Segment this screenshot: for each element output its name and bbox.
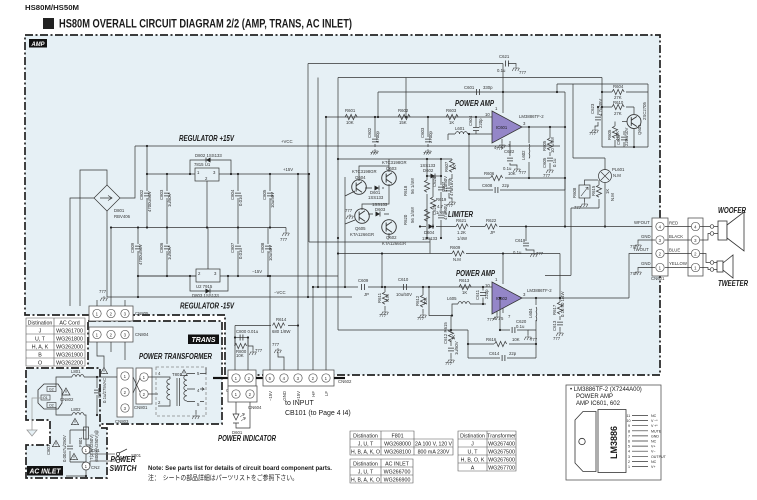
svg-text:Q602: Q602 <box>386 235 397 240</box>
svg-text:R614: R614 <box>276 317 287 322</box>
svg-text:4.7: 4.7 <box>437 204 444 209</box>
transistor Q605 <box>355 209 370 224</box>
svg-text:HF: HF <box>311 391 316 397</box>
svg-text:+VCC: +VCC <box>281 139 293 144</box>
X cap across switch <box>70 430 86 462</box>
svg-text:LM3886TF-2: LM3886TF-2 <box>519 114 544 119</box>
svg-text:LF: LF <box>324 391 329 396</box>
IC body <box>598 410 626 473</box>
svg-text:RED: RED <box>669 221 678 226</box>
connector CN604 <box>228 386 257 402</box>
svg-text:777: 777 <box>553 336 561 341</box>
svg-text:D803 1SS133: D803 1SS133 <box>192 293 219 298</box>
gray ground left <box>27 420 37 436</box>
svg-text:15K: 15K <box>399 120 407 125</box>
svg-text:Note: See parts list for detai: Note: See parts list for details of circ… <box>148 465 332 472</box>
svg-text:L801: L801 <box>71 369 81 374</box>
svg-text:BLACK: BLACK <box>669 234 683 239</box>
svg-text:4: 4 <box>628 450 630 454</box>
svg-text:1u/50V: 1u/50V <box>167 246 172 260</box>
svg-text:C608: C608 <box>482 183 493 188</box>
svg-text:J, U, T: J, U, T <box>358 470 374 476</box>
svg-text:CN1: CN1 <box>91 448 100 453</box>
svg-text:22p: 22p <box>509 351 517 356</box>
transformer T801 <box>156 367 206 416</box>
speaker tweeter <box>717 261 723 272</box>
fuse F801 <box>84 427 89 439</box>
svg-text:GND: GND <box>651 434 659 438</box>
capacitor C807 <box>237 228 239 277</box>
svg-text:KTC3198GR: KTC3198GR <box>382 160 407 165</box>
diode D603 <box>376 212 381 217</box>
wire -15V left segment <box>138 275 196 277</box>
lamp PL601 + LDR R608 block <box>573 158 605 170</box>
capacitor C804 <box>237 174 239 228</box>
connector CN804 <box>89 327 133 342</box>
svg-text:R609: R609 <box>450 245 461 250</box>
resistor R615 + capacitor C612 <box>450 340 452 358</box>
svg-text:IC602: IC602 <box>496 296 508 301</box>
svg-text:Distination: Distination <box>28 321 53 327</box>
tweeter wiring <box>700 254 710 270</box>
svg-text:R604: R604 <box>613 84 624 89</box>
diode D803 loop <box>190 276 228 291</box>
svg-text:0.1u 50 1/4W: 0.1u 50 1/4W <box>560 290 565 317</box>
CN602 risers <box>270 117 326 370</box>
svg-text:0.1u: 0.1u <box>516 324 525 329</box>
svg-text:Distination: Distination <box>460 434 485 440</box>
connector CN805 <box>89 306 133 321</box>
svg-text:WG266900: WG266900 <box>384 478 411 484</box>
diode D802 loop <box>190 160 231 174</box>
regulator U1 7815 <box>195 168 219 181</box>
svg-text:注： シートの部品詳細はパーツリストをご参照下さい。: 注： シートの部品詳細はパーツリストをご参照下さい。 <box>148 473 298 482</box>
table AC Cord <box>26 318 85 366</box>
svg-text:Q605: Q605 <box>355 226 366 231</box>
svg-text:POWER AMP: POWER AMP <box>576 394 613 400</box>
table Transformer <box>458 431 516 471</box>
svg-text:J: J <box>471 442 474 448</box>
svg-text:1/4W: 1/4W <box>457 236 468 241</box>
svg-text:O: O <box>38 361 42 367</box>
svg-text:R601: R601 <box>345 108 356 113</box>
svg-text:N.M: N.M <box>385 294 390 302</box>
svg-text:WG267600: WG267600 <box>488 458 515 464</box>
capacitor C623 <box>595 107 598 128</box>
connector CN803 <box>117 368 133 417</box>
svg-text:R608: R608 <box>572 187 577 198</box>
svg-text:777: 777 <box>496 146 504 151</box>
svg-text:(800mA/250V)@: (800mA/250V)@ <box>94 430 99 462</box>
svg-text:WG266700: WG266700 <box>384 470 411 476</box>
svg-text:KTA1266GR: KTA1266GR <box>382 241 406 246</box>
X-cap C818 <box>96 377 98 415</box>
svg-text:L605: L605 <box>447 296 457 301</box>
svg-text:1K: 1K <box>452 165 457 170</box>
svg-text:10: 10 <box>627 419 631 423</box>
svg-text:777: 777 <box>543 173 551 178</box>
svg-text:R613: R613 <box>459 278 470 283</box>
svg-text:1K: 1K <box>451 335 456 340</box>
svg-text:777: 777 <box>574 205 582 210</box>
svg-text:+15V: +15V <box>283 167 293 172</box>
wire top loop lines <box>308 64 648 298</box>
svg-text:22p: 22p <box>502 183 510 188</box>
svg-text:777: 777 <box>255 348 263 353</box>
wire 0V rail <box>111 227 286 229</box>
svg-text:WG267500: WG267500 <box>488 450 515 456</box>
capacitor C809 <box>137 228 139 298</box>
svg-text:O2: O2 <box>49 404 54 408</box>
wires between connectors <box>665 227 691 268</box>
wire GND stubs <box>638 240 655 270</box>
svg-text:OUTPUT: OUTPUT <box>651 455 667 459</box>
TRANS tag <box>188 335 219 345</box>
svg-text:D801: D801 <box>114 208 125 213</box>
table F801 <box>350 431 453 455</box>
svg-text:WFOUT: WFOUT <box>634 220 650 225</box>
svg-text:C807: C807 <box>230 242 235 253</box>
capacitor C609 <box>362 284 365 290</box>
svg-text:777: 777 <box>519 170 527 175</box>
svg-text:56 1/4W: 56 1/4W <box>410 177 415 194</box>
svg-text:L802: L802 <box>71 407 81 412</box>
svg-text:10: 10 <box>485 283 490 288</box>
inductor L802 <box>56 407 72 415</box>
resistor R616 feedback <box>468 330 536 358</box>
junction dots supply <box>110 145 271 298</box>
svg-text:0.1u: 0.1u <box>552 158 557 167</box>
svg-text:777: 777 <box>589 131 597 136</box>
svg-text:220p: 220p <box>478 118 483 128</box>
svg-text:LM3886TF-2: LM3886TF-2 <box>527 288 552 293</box>
capacitor C607 <box>449 179 452 200</box>
svg-text:MUTE: MUTE <box>651 429 662 433</box>
resistor R602 <box>398 114 410 119</box>
svg-text:WG262200: WG262200 <box>56 361 83 367</box>
svg-text:N.M: N.M <box>453 257 461 262</box>
svg-text:4700u/50V: 4700u/50V <box>147 191 152 212</box>
bridge rectifier D801 <box>70 146 135 306</box>
svg-text:KTC3198GR: KTC3198GR <box>352 169 377 174</box>
svg-text:CN803: CN803 <box>115 419 129 424</box>
svg-text:−15V: −15V <box>268 391 273 401</box>
svg-text:REGULATOR -15V: REGULATOR -15V <box>180 302 235 311</box>
svg-text:C609: C609 <box>358 278 369 283</box>
svg-text:777: 777 <box>379 313 387 318</box>
capacitor C603 <box>427 117 429 147</box>
svg-text:R605: R605 <box>607 129 612 140</box>
svg-text:C804: C804 <box>230 189 235 200</box>
svg-text:F801: F801 <box>391 434 403 440</box>
transistor Q601 <box>627 115 641 129</box>
diode D602 <box>427 175 441 177</box>
capacitor C601 <box>477 89 480 95</box>
zobel R617 C613 <box>559 298 561 331</box>
svg-text:A: A <box>471 466 475 472</box>
svg-text:H, B, A, K, O: H, B, A, K, O <box>351 450 380 456</box>
capacitor C805 <box>269 174 271 228</box>
svg-text:4700p: 4700p <box>375 130 380 143</box>
svg-text:D602: D602 <box>423 168 434 173</box>
svg-text:1u/50V: 1u/50V <box>167 193 172 207</box>
svg-text:HS80M/HS50M: HS80M/HS50M <box>25 5 79 12</box>
svg-text:Q603: Q603 <box>386 166 397 171</box>
svg-text:JP: JP <box>364 292 369 297</box>
svg-text:BLUE: BLUE <box>669 248 680 253</box>
connector CN2 <box>82 462 90 470</box>
svg-text:680 1/8W: 680 1/8W <box>272 329 291 334</box>
speaker woofer <box>718 221 727 240</box>
table AC INLET <box>350 459 413 483</box>
svg-text:7: 7 <box>628 434 630 438</box>
svg-text:R607: R607 <box>444 161 449 172</box>
svg-text:R620: R620 <box>403 214 408 225</box>
connector CN801 <box>136 368 152 404</box>
svg-text:C612 R615: C612 R615 <box>443 322 448 344</box>
svg-text:777: 777 <box>519 70 527 75</box>
svg-text:TWEETER: TWEETER <box>718 279 748 288</box>
woofer wiring <box>700 227 710 241</box>
svg-text:0.01u: 0.01u <box>238 248 243 259</box>
svg-text:Q601: Q601 <box>637 124 642 135</box>
primary coil <box>164 377 170 406</box>
svg-text:777: 777 <box>530 337 538 342</box>
inductor L801 <box>56 377 72 387</box>
input line <box>313 286 492 288</box>
svg-text:CN802: CN802 <box>60 397 74 402</box>
svg-text:56 1/4W: 56 1/4W <box>410 206 415 223</box>
svg-text:POWER INDICATOR: POWER INDICATOR <box>218 434 276 443</box>
svg-text:CN801: CN801 <box>134 405 148 410</box>
svg-text:R617: R617 <box>552 304 557 315</box>
svg-text:C621: C621 <box>499 54 510 59</box>
svg-text:• LM3886TF-2 (X7244A00): • LM3886TF-2 (X7244A00) <box>570 387 642 393</box>
svg-text:10K: 10K <box>423 297 428 305</box>
svg-text:R616: R616 <box>486 337 497 342</box>
capacitor C620 + inductor L604 <box>500 298 528 335</box>
connector CN601 <box>652 218 668 276</box>
svg-text:7815 U1: 7815 U1 <box>194 162 211 167</box>
svg-text:LM3886: LM3886 <box>609 426 619 459</box>
right block R604/R610/Q601 <box>602 78 648 148</box>
svg-text:NC: NC <box>651 414 657 418</box>
svg-text:27K: 27K <box>614 111 622 116</box>
svg-text:R622: R622 <box>486 218 497 223</box>
resistor R607 <box>451 159 453 179</box>
svg-text:NC: NC <box>651 440 657 444</box>
svg-text:C800 0.01u: C800 0.01u <box>236 329 259 334</box>
svg-text:777: 777 <box>445 361 453 366</box>
svg-text:POWER AMP: POWER AMP <box>455 99 495 108</box>
svg-text:HS80M OVERALL CIRCUIT DIAGRAM: HS80M OVERALL CIRCUIT DIAGRAM 2/2 (AMP, … <box>59 17 352 31</box>
svg-text:C803: C803 <box>159 189 164 200</box>
capacitor C806 <box>166 228 168 277</box>
wire -15V rail <box>138 275 338 277</box>
capacitor C608 feedback <box>469 178 565 190</box>
svg-text:R618: R618 <box>403 185 408 196</box>
svg-text:10 1/4W: 10 1/4W <box>550 136 555 153</box>
svg-text:AC Cord: AC Cord <box>59 321 79 327</box>
svg-text:10: 10 <box>485 112 490 117</box>
svg-text:YELLOW: YELLOW <box>669 261 688 266</box>
svg-text:1/4W: 1/4W <box>436 210 447 215</box>
svg-text:Q604: Q604 <box>355 175 366 180</box>
svg-text:R611: R611 <box>377 292 382 303</box>
svg-text:L601: L601 <box>455 126 465 131</box>
svg-text:C614: C614 <box>489 351 500 356</box>
svg-text:C622: C622 <box>504 149 515 154</box>
op-amp IC602 <box>492 282 522 314</box>
svg-text:0.1u: 0.1u <box>497 68 506 73</box>
svg-text:WG267400: WG267400 <box>488 442 515 448</box>
svg-text:+15V: +15V <box>296 391 301 401</box>
svg-text:D601: D601 <box>232 430 243 435</box>
svg-text:U, T: U, T <box>468 450 479 456</box>
svg-text:N.M: N.M <box>610 193 615 201</box>
svg-text:AMP: AMP <box>31 41 45 48</box>
capacitor C803 <box>166 174 168 228</box>
svg-text:C623: C623 <box>590 103 595 114</box>
inductor L602 <box>528 127 530 178</box>
svg-text:JP: JP <box>490 230 495 235</box>
svg-text:R610: R610 <box>613 100 624 105</box>
svg-text:10u/50V: 10u/50V <box>396 292 412 297</box>
svg-text:11: 11 <box>627 414 631 418</box>
svg-text:C808: C808 <box>260 242 265 253</box>
svg-text:GND: GND <box>641 234 651 239</box>
resistors R618 R619 caps C624 C625 <box>424 180 429 192</box>
svg-text:10u/50V: 10u/50V <box>268 245 273 261</box>
svg-text:AC INLET: AC INLET <box>385 462 410 468</box>
svg-text:U2 7915: U2 7915 <box>196 284 213 289</box>
AC INLET tag <box>27 466 63 476</box>
svg-text:B: B <box>38 353 42 359</box>
AMP tag <box>29 39 47 48</box>
svg-text:J: J <box>39 329 42 335</box>
svg-text:AMP IC601, 602: AMP IC601, 602 <box>576 401 621 407</box>
svg-text:1K: 1K <box>462 290 467 295</box>
svg-text:800 mA 230V: 800 mA 230V <box>418 450 450 456</box>
resistor R603 <box>446 114 458 119</box>
svg-text:S801: S801 <box>131 453 142 458</box>
svg-text:CN2: CN2 <box>91 465 100 470</box>
svg-text:3: 3 <box>628 455 630 459</box>
svg-text:−15V: −15V <box>252 269 262 274</box>
svg-text:F801: F801 <box>78 437 83 447</box>
svg-text:TRANS: TRANS <box>192 337 216 344</box>
svg-text:2700p: 2700p <box>428 130 433 143</box>
svg-text:10K: 10K <box>512 337 520 342</box>
svg-text:220p: 220p <box>484 289 489 299</box>
resistor R605 + C605 zobel <box>549 127 551 168</box>
svg-text:777: 777 <box>630 244 638 249</box>
wire -VCC rail <box>107 296 352 298</box>
WFOUT line with D604 R621 R622 <box>420 226 655 228</box>
resistor R619 <box>430 197 435 209</box>
svg-text:C606: C606 <box>616 134 621 145</box>
L605 + C611 <box>429 287 486 316</box>
capacitor C621 <box>506 61 509 67</box>
svg-text:1u/50V: 1u/50V <box>454 341 459 355</box>
svg-text:0.1u/275VAC: 0.1u/275VAC <box>102 378 107 403</box>
svg-text:GND: GND <box>641 261 651 266</box>
svg-text:WG268100: WG268100 <box>384 450 411 456</box>
resistor R613 <box>459 284 471 289</box>
capacitor C619 <box>526 227 534 253</box>
svg-text:CN805: CN805 <box>135 311 149 316</box>
svg-text:AC INLET: AC INLET <box>29 469 62 476</box>
svg-text:C610: C610 <box>398 277 409 282</box>
svg-text:Transformer: Transformer <box>487 434 516 440</box>
wires CN804 down to transformer connectors <box>97 342 125 368</box>
capacitor C610 <box>404 284 407 290</box>
capacitor C602 <box>374 117 376 147</box>
svg-text:6: 6 <box>628 440 630 444</box>
R609 N.M / TWOUT line <box>338 238 560 298</box>
svg-text:H, A, K: H, A, K <box>32 345 49 351</box>
svg-text:R619: R619 <box>436 197 447 202</box>
svg-text:WG261700: WG261700 <box>56 329 83 335</box>
svg-text:Distination: Distination <box>353 462 378 468</box>
svg-text:777: 777 <box>345 208 353 213</box>
svg-text:L602: L602 <box>521 150 526 160</box>
secondary coil <box>184 374 195 402</box>
resistor R612 <box>422 287 424 313</box>
connector CN603 <box>213 377 228 379</box>
svg-text:C603: C603 <box>420 127 425 138</box>
svg-text:C604: C604 <box>468 115 473 126</box>
svg-text:220u/10V: 220u/10V <box>624 127 629 146</box>
svg-text:9: 9 <box>628 424 630 428</box>
svg-text:U, T: U, T <box>35 337 46 343</box>
svg-text:Distination: Distination <box>353 434 378 440</box>
svg-text:10K: 10K <box>508 171 516 176</box>
op-amp IC601 <box>492 111 522 143</box>
svg-text:R606: R606 <box>484 171 495 176</box>
wire +VCC rail <box>135 145 560 147</box>
AC INLET block background <box>26 368 107 478</box>
transistor Q602 <box>382 220 397 235</box>
svg-text:R621: R621 <box>456 218 467 223</box>
svg-text:WG262000: WG262000 <box>56 345 83 351</box>
svg-text:RBV406: RBV406 <box>114 214 131 219</box>
svg-text:SWITCH: SWITCH <box>110 464 137 473</box>
svg-text:R615: R615 <box>591 185 596 196</box>
svg-text:CN804: CN804 <box>135 332 149 337</box>
svg-text:KTA1266GR: KTA1266GR <box>350 232 374 237</box>
svg-text:C802: C802 <box>139 189 144 200</box>
svg-text:C805: C805 <box>262 189 267 200</box>
svg-text:CB101 (to Page 4 I4): CB101 (to Page 4 I4) <box>285 410 351 417</box>
resistor R611 <box>384 287 386 310</box>
svg-text:C607: C607 <box>441 181 446 192</box>
svg-text:J, U, T: J, U, T <box>358 442 374 448</box>
svg-text:777: 777 <box>272 342 280 347</box>
output wire <box>522 254 655 299</box>
svg-text:GND: GND <box>282 391 287 401</box>
crossing wires CN803-CN801 <box>133 377 158 394</box>
svg-text:V+: V+ <box>651 465 656 469</box>
resistor R605b 470K <box>612 126 617 138</box>
transistor Q603 <box>382 171 397 186</box>
svg-text:47u/16V: 47u/16V <box>449 180 454 196</box>
pins <box>632 416 648 467</box>
IC package tab <box>575 412 596 472</box>
ground at 0V rail <box>285 228 287 232</box>
svg-text:R603: R603 <box>446 108 457 113</box>
svg-text:R612: R612 <box>415 295 420 306</box>
